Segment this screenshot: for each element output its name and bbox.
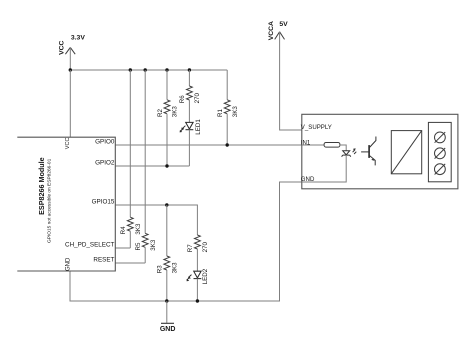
wire resistor to LED xyxy=(340,145,346,151)
resistor R1 xyxy=(217,70,239,145)
svg-text:3K3: 3K3 xyxy=(172,106,179,118)
svg-text:R1: R1 xyxy=(217,109,224,117)
ESP8266 module box U1 xyxy=(17,137,115,271)
junction dot R3 bottom xyxy=(165,299,168,302)
svg-text:R7: R7 xyxy=(187,244,194,252)
junction dot R1 bottom xyxy=(226,143,229,146)
svg-text:GND: GND xyxy=(160,326,176,333)
relay coil K1 xyxy=(391,131,421,174)
relay module box xyxy=(302,114,458,189)
wire IN1 internal xyxy=(302,144,324,146)
wire VCCA to V_SUPPLY xyxy=(280,32,302,130)
wire LED2 cathode xyxy=(196,279,198,301)
supply VCC 3.3V xyxy=(65,47,75,54)
svg-text:270: 270 xyxy=(194,93,201,104)
wire GPIO15 xyxy=(115,205,197,235)
svg-text:VCCA: VCCA xyxy=(268,21,275,40)
wire LED1 cathode xyxy=(188,130,190,166)
wire ESP GND down xyxy=(70,182,302,301)
svg-text:3.3V: 3.3V xyxy=(71,35,85,42)
wire VCC pin drop xyxy=(69,70,71,138)
opto transistor Q1 xyxy=(361,137,376,166)
resistor R3 xyxy=(157,205,179,301)
resistor R2 xyxy=(157,70,179,166)
svg-text:ESP8266 Module: ESP8266 Module xyxy=(37,157,46,215)
resistor opto series xyxy=(324,143,340,148)
resistor R4 xyxy=(120,70,142,248)
svg-text:LED1: LED1 xyxy=(195,119,202,135)
svg-text:3K3: 3K3 xyxy=(150,239,157,251)
wire GPIO2 xyxy=(115,165,189,167)
svg-text:CH_PD_SELECT: CH_PD_SELECT xyxy=(65,242,114,249)
junction dot LED2 bottom xyxy=(196,299,199,302)
svg-text:VCC: VCC xyxy=(58,40,65,54)
opto LED xyxy=(342,148,357,157)
svg-text:270: 270 xyxy=(202,242,209,253)
junction dot R5 top xyxy=(144,68,147,71)
svg-text:GPIO2: GPIO2 xyxy=(95,160,115,167)
svg-text:R6: R6 xyxy=(179,95,186,103)
wire opto LED cathode to GND xyxy=(302,155,346,182)
svg-text:LED2: LED2 xyxy=(202,268,209,284)
junction dot R6 top xyxy=(188,68,191,71)
svg-text:3K3: 3K3 xyxy=(135,223,142,235)
wire GPIO0 to relay IN1 xyxy=(115,144,301,146)
svg-text:3K3: 3K3 xyxy=(232,106,239,118)
wire CH_PD_SELECT xyxy=(115,247,130,249)
terminal block X1 xyxy=(428,122,451,181)
svg-text:R5: R5 xyxy=(135,242,142,250)
svg-text:R4: R4 xyxy=(120,226,127,234)
junction dot R4 top xyxy=(129,68,132,71)
svg-text:V_SUPPLY: V_SUPPLY xyxy=(301,124,332,131)
ground symbol GND xyxy=(160,301,176,333)
resistor R7 xyxy=(187,235,209,271)
junction dot VCC stem xyxy=(69,68,72,71)
svg-text:GPIO15: GPIO15 xyxy=(92,199,115,206)
svg-text:R2: R2 xyxy=(157,109,164,117)
junction dot R3 top xyxy=(165,203,168,206)
svg-text:VCC: VCC xyxy=(65,138,71,150)
svg-text:GPIO15 not accessible on ESP82: GPIO15 not accessible on ESP8266-01 xyxy=(46,158,52,243)
junction dot R2 top xyxy=(165,68,168,71)
svg-text:GPIO0: GPIO0 xyxy=(95,139,115,146)
LED LED1 xyxy=(180,122,194,132)
wire VCC bus xyxy=(70,69,227,71)
wire VCC stem xyxy=(69,47,71,70)
svg-text:3K3: 3K3 xyxy=(171,262,178,274)
svg-text:RESET: RESET xyxy=(93,257,114,264)
resistor R5 xyxy=(135,70,157,263)
svg-text:R3: R3 xyxy=(157,265,164,273)
LED LED2 xyxy=(187,271,202,281)
svg-text:5V: 5V xyxy=(279,21,288,28)
wire RESET xyxy=(115,262,145,264)
svg-text:GND: GND xyxy=(65,257,71,271)
supply VCCA 5V xyxy=(275,32,285,40)
resistor R6 xyxy=(179,70,201,122)
junction dot R2 bottom xyxy=(165,164,168,167)
